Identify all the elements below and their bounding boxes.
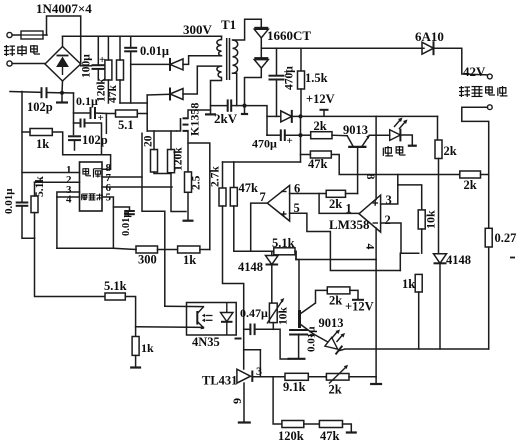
- wire 1k-bl bottom: [135, 355, 137, 366]
- diode D4 1660CT lower: [254, 58, 268, 68]
- wire 102p A left: [10, 91, 42, 94]
- svg-text:4148: 4148: [446, 253, 471, 267]
- wire LED2 to rail: [340, 349, 489, 351]
- svg-text:2k: 2k: [329, 383, 342, 397]
- label jie-shi-dian (connect mains): [4, 45, 40, 56]
- wire source down: [187, 131, 189, 172]
- wire 0.01u left bottom: [22, 206, 35, 239]
- plus C1: [99, 54, 105, 66]
- wire op2 pin3: [381, 175, 398, 205]
- capacitor 0.01u snubber: [124, 48, 137, 52]
- wire node to 4148: [271, 251, 273, 255]
- resistor R 47k: [117, 60, 124, 80]
- svg-text:9013: 9013: [343, 123, 368, 137]
- wire battery minus jog: [462, 107, 489, 349]
- ground TL431: [238, 421, 251, 423]
- label 1k right: [402, 277, 415, 291]
- wire +12V column: [300, 116, 302, 162]
- svg-text:2.5: 2.5: [191, 175, 203, 190]
- svg-text:300: 300: [138, 253, 157, 267]
- label 1.5k: [305, 71, 328, 85]
- wire ground net to base: [296, 251, 299, 310]
- svg-text:5.1k: 5.1k: [104, 279, 127, 293]
- pin 5 label: [106, 192, 112, 204]
- label 2kV: [214, 111, 238, 126]
- label 5.1k B: [272, 236, 295, 250]
- capacitor C1 100u: [92, 65, 106, 69]
- svg-text:1k: 1k: [402, 277, 415, 291]
- tick below 2kV node: [241, 113, 248, 115]
- wire 2kV right: [231, 105, 244, 107]
- svg-text:2.7k: 2.7k: [210, 166, 222, 187]
- svg-text:1k: 1k: [183, 253, 196, 267]
- label 5.1k horizontal: [104, 279, 127, 293]
- wire rail to primary: [221, 36, 223, 39]
- symbol +12V tick B: [352, 299, 364, 301]
- label 9013 A: [343, 123, 368, 137]
- wire 0.47 node down: [273, 329, 288, 359]
- svg-text:5.1: 5.1: [118, 118, 134, 132]
- svg-text:47k: 47k: [239, 181, 259, 195]
- svg-text:1660CT: 1660CT: [267, 28, 311, 43]
- label 5.1: [118, 118, 134, 132]
- wire Q1 base down: [357, 147, 359, 194]
- resistor R 120k mid: [168, 150, 175, 173]
- wire beta left: [74, 122, 81, 124]
- label 102p B: [82, 133, 108, 147]
- wire IC pin5 jog: [102, 197, 113, 248]
- svg-text:0.01μ: 0.01μ: [121, 212, 132, 236]
- wire 4148 right bottom: [439, 263, 441, 349]
- resistor R 1k input: [30, 129, 52, 136]
- label 120k: [96, 78, 108, 102]
- label chong-dian (charging): [383, 146, 405, 156]
- pin 4 label: [66, 194, 72, 206]
- svg-text:LM358: LM358: [329, 217, 370, 232]
- wire IC pin2: [35, 181, 80, 183]
- wire pin2 riser: [399, 253, 401, 270]
- wire 47k-col bottom: [234, 206, 274, 251]
- junction 470uB node: [298, 133, 302, 137]
- label 0.1u: [76, 94, 98, 108]
- optocoupler LED: [221, 303, 234, 336]
- wire 470u bottom: [276, 80, 278, 117]
- wire IC pin3: [57, 192, 80, 197]
- svg-text:100μ: 100μ: [81, 54, 93, 78]
- tick gnd column: [370, 383, 382, 385]
- label 470u A: [284, 66, 296, 90]
- svg-text:102p: 102p: [27, 100, 53, 114]
- label dian-yuan (power): [83, 168, 102, 178]
- resistor R 2k E: [327, 287, 350, 294]
- label 300V: [183, 22, 213, 37]
- optocoupler light arrows: [202, 314, 213, 322]
- dash mark right: [510, 257, 515, 259]
- transistor Q2 9013: [300, 303, 316, 338]
- resistor R 300: [136, 246, 158, 253]
- transformer primary winding upper: [217, 40, 222, 56]
- svg-text:9.1k: 9.1k: [283, 380, 306, 394]
- ground below bridge: [56, 101, 68, 103]
- svg-text:1k: 1k: [141, 341, 154, 355]
- svg-text:6: 6: [231, 398, 245, 404]
- svg-text:47k: 47k: [107, 85, 119, 104]
- pin 3 label: [66, 184, 72, 196]
- pin 6 label opamp: [294, 182, 300, 196]
- wire 2k-B top: [437, 116, 439, 140]
- diode D5 +12V rect: [281, 110, 292, 123]
- wire gate bus: [147, 130, 176, 132]
- label T1: [221, 17, 236, 32]
- wire 300V rail: [63, 35, 222, 37]
- capacitor 102p A: [42, 87, 47, 98]
- label K1358: [188, 103, 202, 136]
- svg-text:4: 4: [66, 194, 72, 206]
- svg-text:2k: 2k: [314, 119, 327, 133]
- label 10k pot: [278, 307, 290, 326]
- op-amp U1B LM358: [359, 195, 381, 232]
- label 0.01u: [140, 44, 169, 58]
- label 2.7k: [210, 166, 222, 187]
- pin 8 label: [106, 162, 112, 174]
- optocoupler U3 4N35 box: [187, 303, 237, 336]
- wire 120k-mid bottom: [171, 173, 186, 212]
- svg-text:10k: 10k: [424, 210, 438, 229]
- label 5.1k vertical: [34, 176, 46, 197]
- wire 4148 left bottom: [271, 264, 273, 303]
- wire 120k bottom: [107, 80, 109, 103]
- wire 9.1k to pot: [308, 376, 326, 378]
- resistor R 47k bottom: [319, 421, 342, 428]
- wire pin5 gnd branch: [113, 207, 129, 211]
- wire D5 cathode: [292, 115, 301, 117]
- wire 6A10 to 42V term: [434, 48, 488, 75]
- capacitor 0.01u left: [16, 203, 29, 206]
- wire op1 pin6: [290, 193, 327, 195]
- svg-text:3: 3: [256, 364, 262, 378]
- IC U2 thick-film power module: [80, 162, 103, 211]
- ground below 1k: [130, 366, 141, 368]
- wire 1k right lead down: [52, 132, 101, 155]
- wire 2kC right to base: [346, 193, 358, 195]
- wire D5 anode: [267, 115, 280, 117]
- resistor R 47k mid: [230, 188, 237, 207]
- wire 2k-D right: [481, 174, 489, 176]
- svg-text:3: 3: [386, 193, 392, 207]
- svg-text:10k: 10k: [278, 307, 290, 326]
- wire 0.01uB bottom: [298, 334, 300, 358]
- resistor R 47k sense: [310, 151, 331, 158]
- wire bridge top to 300V rail: [62, 36, 64, 46]
- pin 1 label: [66, 164, 72, 176]
- wire op2 pin2: [381, 223, 419, 253]
- label 0.47u: [240, 306, 268, 320]
- plus 470uB: [287, 135, 293, 147]
- capacitor 102p B: [68, 136, 81, 140]
- wire IC pin7: [102, 176, 142, 178]
- label LM358: [329, 217, 370, 232]
- svg-text:4N35: 4N35: [192, 335, 220, 349]
- wire 120k-47k: [304, 423, 320, 425]
- wire 5.1k bus down: [35, 238, 106, 296]
- pin 3 label opamp: [386, 193, 392, 207]
- wire pin6 node to pin1: [319, 194, 359, 214]
- wire 102p A right: [47, 92, 63, 94]
- wire 47k-b to gnd: [343, 424, 352, 432]
- wire D1 to primary tap: [183, 56, 222, 65]
- wire R20 bottom: [154, 172, 171, 174]
- wire 470uB left: [267, 134, 281, 136]
- svg-text:2: 2: [385, 213, 391, 227]
- label 2k E: [329, 294, 342, 308]
- wire 0.01u bottom lead: [130, 51, 132, 103]
- wire opto emitter out: [136, 326, 204, 329]
- symbol +12V tick: [320, 110, 329, 117]
- label 9013 B: [319, 316, 344, 330]
- wire pot to gnd col: [349, 376, 376, 378]
- capacitor C 2kV: [228, 99, 232, 111]
- wire +12V line: [301, 115, 438, 117]
- wire gnd column: [375, 260, 377, 384]
- LED charge indicator: [390, 118, 408, 142]
- capacitor 0.01u pin5: [124, 211, 135, 214]
- svg-text:2k: 2k: [464, 178, 477, 192]
- pin 5 label opamp: [294, 201, 300, 215]
- wire 2kV node up to D4: [245, 68, 262, 105]
- wire 102p B bottom: [74, 140, 76, 150]
- pin 7 label: [106, 172, 112, 184]
- transformer feedback winding lower: [217, 66, 222, 77]
- wire riser diode2 node: [146, 114, 148, 132]
- wire 1k-mid right: [200, 249, 210, 251]
- label 6A10: [415, 29, 444, 44]
- dash mark minus: [235, 338, 242, 340]
- wire 0.47 branch: [244, 328, 251, 330]
- junction bridge minus: [60, 91, 64, 95]
- bridge rectifier BR1: [45, 47, 81, 82]
- wire 1.5k bottom: [300, 89, 302, 116]
- label +12V top: [306, 92, 335, 106]
- resistor R 2k C feedback: [326, 190, 345, 197]
- svg-text:0.47μ: 0.47μ: [240, 306, 268, 320]
- wire D2 to primary bottom tap: [183, 66, 222, 94]
- fuse F1: [21, 31, 43, 39]
- wire 0.01u top lead: [130, 36, 132, 48]
- pin 7 label opamp: [260, 190, 266, 204]
- resistor R 5.1: [116, 110, 138, 117]
- resistor R 2.7k: [219, 188, 226, 206]
- svg-text:42V: 42V: [463, 64, 486, 79]
- label 1660CT: [267, 28, 311, 43]
- resistor R 5.1k B: [274, 248, 295, 255]
- label TL431: [202, 374, 237, 388]
- svg-text:102p: 102p: [82, 133, 108, 147]
- resistor R 1.5k: [298, 71, 305, 89]
- svg-text:0.1μ: 0.1μ: [76, 94, 98, 108]
- pin 8 label opamp: [364, 174, 378, 180]
- label 0.01u B: [306, 326, 318, 352]
- wire 470uB right: [285, 134, 301, 136]
- svg-text:2k: 2k: [444, 144, 457, 158]
- wire D2 left lead: [147, 93, 170, 96]
- resistor R 1k right: [415, 274, 422, 292]
- plus 470uA: [284, 67, 290, 79]
- wire op2 pin4 gnd: [296, 228, 376, 260]
- wire 42V rail: [261, 47, 424, 49]
- wire 120k-mid top: [170, 131, 172, 150]
- label 2k D: [464, 178, 477, 192]
- resistor R 2k D: [460, 171, 481, 178]
- resistor R 5.1k vertical: [31, 196, 38, 213]
- svg-text:K1358: K1358: [188, 103, 202, 136]
- wire gate lead: [177, 130, 181, 132]
- label jie-xu-dian-chi (battery): [459, 86, 508, 97]
- wire TL431 ref jog: [244, 349, 261, 351]
- wire secondary top out: [233, 19, 262, 40]
- IC U4 TL431: [237, 369, 252, 383]
- label 100u: [81, 54, 93, 78]
- svg-text:1N4007×4: 1N4007×4: [36, 1, 92, 16]
- label 2k pot: [329, 383, 342, 397]
- pin 2 label opamp: [385, 213, 391, 227]
- wire 47k-sense right: [331, 155, 460, 175]
- svg-text:9013: 9013: [319, 316, 344, 330]
- transformer secondary winding: [233, 40, 238, 73]
- wire 2.7k bottom: [223, 206, 244, 369]
- label 120k bottom: [278, 429, 304, 443]
- label 47k mid: [239, 181, 259, 195]
- label 10k A: [424, 210, 438, 229]
- optocoupler phototransistor: [197, 307, 204, 330]
- label bracket 1N4007x4: [47, 16, 81, 64]
- capacitor C 470u B: [281, 129, 285, 141]
- junction 2kV node: [242, 104, 246, 108]
- wire source to 1k riser: [188, 143, 210, 250]
- terminal 42V+: [487, 74, 492, 79]
- wire 0.1u branch vertical: [73, 93, 75, 135]
- wire between 1660 diodes: [260, 38, 262, 59]
- resistor R 9.1k: [285, 373, 308, 380]
- resistor R 2k B: [435, 140, 442, 159]
- resistor R 1k mid: [178, 246, 200, 253]
- wire bridge minus: [61, 81, 64, 93]
- resistor R 20: [151, 150, 158, 173]
- wire 2kV left: [211, 105, 228, 107]
- label 4148 right: [446, 253, 471, 267]
- svg-text:0.27: 0.27: [495, 231, 517, 245]
- wire 1.5k top: [300, 48, 302, 71]
- wire pin5net to 300: [113, 248, 136, 249]
- label 4148 left: [238, 260, 263, 274]
- svg-text:+12V: +12V: [306, 92, 335, 106]
- wire 5.1k-h right: [125, 297, 135, 337]
- label 470u B: [252, 137, 277, 151]
- label 1k input: [36, 137, 49, 151]
- svg-text:120k: 120k: [278, 429, 304, 443]
- wire bottom bus of filters: [120, 102, 147, 104]
- wire TL431 out row: [252, 376, 285, 378]
- wire Q2 collector up: [316, 290, 328, 303]
- wire secondary bottom out: [233, 73, 237, 105]
- diode D2 clamp: [170, 88, 183, 101]
- wire to 0.1u cap: [74, 112, 91, 114]
- label 0.01u left: [3, 188, 15, 214]
- wire Q2 emitter to LED2: [314, 334, 328, 342]
- wire node to D1: [131, 63, 170, 65]
- op-amp U1A LM358: [267, 185, 289, 221]
- wire 2.5 bottom to gnd: [187, 192, 189, 219]
- wire 1k left: [22, 131, 30, 133]
- resistor R 2.5: [185, 172, 192, 192]
- wire ref riser: [259, 350, 261, 377]
- wire 0.1u right: [95, 112, 106, 115]
- svg-text:TL431: TL431: [202, 374, 237, 388]
- wire 5.1 left to node: [106, 114, 115, 134]
- svg-text:470μ: 470μ: [284, 66, 296, 90]
- wire R20 top: [153, 131, 155, 150]
- wire 47k bottom: [119, 80, 121, 103]
- diode D3 1660CT upper: [254, 28, 268, 38]
- capacitor small beta: [81, 119, 85, 128]
- wire bridge+ to C100u: [81, 65, 92, 67]
- transformer T1 core: [227, 38, 230, 80]
- svg-text:0.01μ: 0.01μ: [3, 188, 15, 214]
- wire 10k bottom: [421, 229, 423, 253]
- wire node to 0.1u branch: [62, 92, 74, 94]
- svg-text:4148: 4148: [238, 260, 263, 274]
- bar below 0.01uB: [288, 358, 306, 360]
- svg-text:0.01μ: 0.01μ: [140, 44, 169, 58]
- svg-text:2k: 2k: [329, 197, 342, 211]
- wire pin7 riser: [142, 133, 165, 306]
- LED low battery indicator: [325, 330, 345, 355]
- svg-text:1.5k: 1.5k: [305, 71, 328, 85]
- junction +12V node: [298, 114, 302, 118]
- pin 1 label opamp: [346, 202, 352, 216]
- label 2k B: [444, 144, 457, 158]
- resistor R 120k: [105, 60, 112, 80]
- plus 0.1u: [98, 112, 104, 124]
- ground below 2.5: [183, 220, 194, 222]
- wire IC pin4: [57, 197, 80, 248]
- wire 5.1k vert top: [34, 182, 36, 196]
- wire beta right to IC pin8 path: [85, 123, 111, 169]
- diode D8 4148 left: [266, 256, 279, 265]
- svg-text:470μ: 470μ: [252, 137, 277, 151]
- label 4N35: [192, 335, 220, 349]
- wire primary bottom: [211, 78, 222, 114]
- label 300: [138, 253, 157, 267]
- wire C1 bottom lead: [97, 69, 99, 80]
- wire riser to D2: [146, 95, 148, 114]
- svg-text:6A10: 6A10: [415, 29, 444, 44]
- wire IC pin6: [102, 186, 172, 188]
- ground bottom divider: [346, 431, 357, 433]
- label 47k: [107, 85, 119, 104]
- label 0.01u pin5: [121, 212, 132, 236]
- wire fuse to label bracket: [43, 34, 47, 36]
- label 2.5: [191, 175, 203, 190]
- wire 47k-sense left: [301, 154, 311, 156]
- resistor R 5.1k horizontal: [105, 293, 125, 300]
- svg-text:20: 20: [143, 135, 155, 147]
- wire IC pin1: [22, 172, 80, 174]
- wire 470u top: [276, 48, 278, 75]
- wire LED cathode: [400, 135, 412, 145]
- wire 5.1 right lead: [137, 113, 147, 115]
- label 1k bottom-left: [141, 341, 154, 355]
- label 47k bottom: [320, 429, 340, 443]
